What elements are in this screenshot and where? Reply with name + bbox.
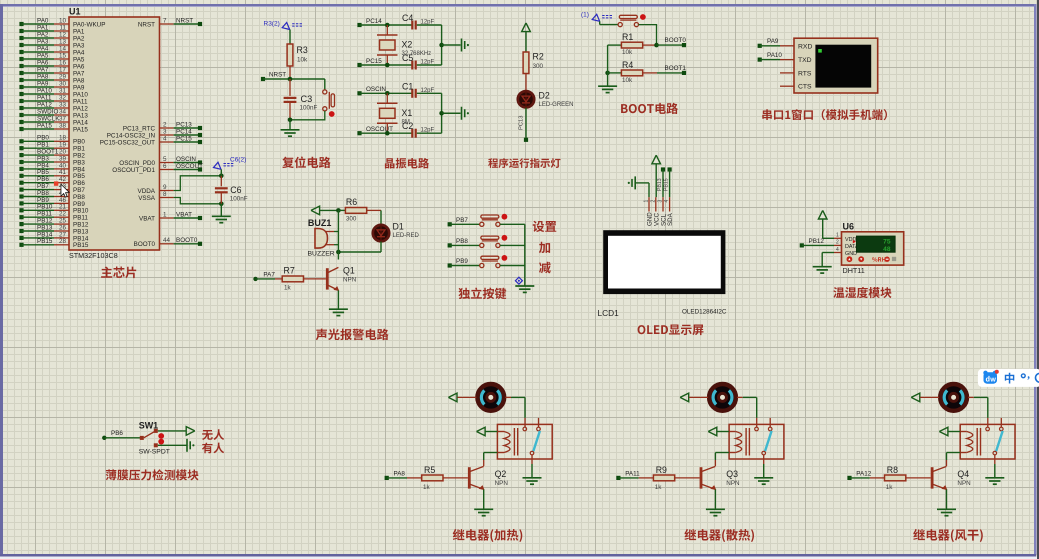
svg-text:1k: 1k bbox=[423, 484, 431, 491]
IME toolbar bbox=[978, 369, 1039, 387]
wire R2 to D2 bbox=[525, 74, 527, 91]
wire crystal caps bus bbox=[439, 93, 460, 133]
wire net OSCIN bbox=[357, 86, 411, 96]
svg-text:X1: X1 bbox=[402, 108, 413, 118]
svg-text:2: 2 bbox=[650, 200, 656, 203]
ground bbox=[813, 267, 832, 273]
label 继电器(散热) bbox=[684, 529, 754, 542]
svg-text:30: 30 bbox=[59, 80, 67, 87]
wire to boot button bbox=[600, 21, 618, 24]
wire boot ground rail bbox=[607, 45, 609, 86]
wire net PA8 bbox=[385, 470, 407, 480]
svg-text:PA2: PA2 bbox=[73, 35, 85, 42]
svg-text:1k: 1k bbox=[886, 484, 894, 491]
svg-text:PA12: PA12 bbox=[73, 105, 88, 112]
label 薄膜压力检测模块 bbox=[106, 469, 199, 480]
wire DHT GND bbox=[822, 253, 834, 267]
wire net SCL bbox=[657, 167, 665, 197]
wire key to ground bus bbox=[500, 265, 525, 267]
wire net OSCOUT bbox=[357, 126, 411, 136]
svg-text:PA14: PA14 bbox=[73, 119, 88, 126]
wire net PA6 to U1 pin 16 bbox=[19, 59, 85, 70]
wire net PB4 to U1 pin 40 bbox=[19, 162, 85, 173]
pushbutton 设置 bbox=[480, 214, 508, 227]
power terminal alarm VCC bbox=[311, 206, 341, 215]
svg-text:PA7: PA7 bbox=[37, 66, 49, 73]
resistor R6 300 bbox=[338, 197, 381, 223]
wire relay common to ground bbox=[994, 455, 996, 477]
svg-text:PA4: PA4 bbox=[73, 49, 85, 56]
svg-text:PA7: PA7 bbox=[263, 272, 275, 279]
svg-text:VBAT: VBAT bbox=[176, 211, 192, 218]
crystal X1 bbox=[377, 93, 412, 133]
svg-text:NPN: NPN bbox=[726, 480, 740, 487]
svg-text:1k: 1k bbox=[655, 484, 663, 491]
svg-text:PB15: PB15 bbox=[663, 178, 669, 191]
svg-text:PA15: PA15 bbox=[37, 122, 52, 129]
wire SW1 NC to ground bbox=[158, 444, 187, 446]
svg-text:PC13_RTC: PC13_RTC bbox=[123, 125, 156, 132]
svg-text:BOOT0: BOOT0 bbox=[665, 37, 687, 44]
power terminal 无人 bbox=[186, 427, 195, 436]
U1 pin 8 VSSA bbox=[138, 191, 173, 202]
ground bbox=[212, 216, 231, 222]
ground bbox=[281, 130, 300, 136]
svg-text:SWCLK: SWCLK bbox=[37, 115, 60, 122]
ground bbox=[598, 86, 617, 92]
svg-text:PA2: PA2 bbox=[37, 31, 49, 38]
buzzer BUZ1 bbox=[308, 218, 339, 257]
U1 pin 3 PC14 bbox=[107, 128, 202, 139]
wire net PA12 bbox=[847, 470, 871, 480]
wire net BOOT1 to U1 pin 20 bbox=[19, 149, 85, 160]
U1 pin 9 VDDA bbox=[138, 184, 174, 195]
svg-text:OLED12864I2C: OLED12864I2C bbox=[682, 309, 727, 316]
svg-text:NRST: NRST bbox=[269, 72, 286, 79]
svg-text:NPN: NPN bbox=[495, 480, 509, 487]
svg-text:PA9: PA9 bbox=[767, 38, 779, 45]
DHT11 display bbox=[853, 236, 895, 253]
svg-text:R4: R4 bbox=[622, 60, 633, 70]
wire VSSA to C6 bottom bbox=[174, 198, 222, 204]
svg-text:PA10: PA10 bbox=[37, 87, 52, 94]
svg-text:PA11: PA11 bbox=[37, 94, 52, 101]
svg-text:38: 38 bbox=[59, 122, 67, 129]
svg-text:PC14: PC14 bbox=[366, 18, 382, 25]
label 加 bbox=[539, 242, 550, 253]
U1 pin 6 OSCOUT bbox=[112, 163, 203, 174]
U1 pin 44 BOOT0 bbox=[134, 237, 202, 248]
power terminal motor bbox=[911, 393, 939, 402]
svg-text:BOOT0: BOOT0 bbox=[134, 241, 156, 248]
LCD1 pin 4 SDA bbox=[664, 197, 674, 226]
wire key to ground bus bbox=[500, 223, 525, 225]
svg-text:U1: U1 bbox=[69, 7, 81, 17]
LCD1 OLED display bbox=[598, 230, 727, 318]
mouse cursor bbox=[54, 181, 69, 197]
svg-text:SWDIO: SWDIO bbox=[37, 108, 58, 115]
svg-text:U6: U6 bbox=[843, 222, 855, 232]
capacitor C1 12pF bbox=[402, 81, 442, 98]
svg-text:17: 17 bbox=[59, 66, 67, 73]
svg-text:PB9: PB9 bbox=[456, 258, 468, 265]
wire net PA12 to U1 pin 33 bbox=[19, 101, 88, 112]
label OLED显示屏 bbox=[638, 325, 704, 336]
svg-text:33: 33 bbox=[59, 101, 67, 108]
svg-text:PA10: PA10 bbox=[767, 52, 782, 59]
wire C6 to ground bbox=[220, 204, 222, 216]
svg-text:PA11: PA11 bbox=[73, 98, 88, 105]
svg-text:100nF: 100nF bbox=[300, 105, 318, 112]
power terminal (1) bbox=[581, 12, 613, 22]
label 声光报警电路 bbox=[316, 329, 389, 341]
capacitor C6 100nF bbox=[215, 176, 248, 204]
svg-text:15: 15 bbox=[59, 52, 67, 59]
relay R5 body bbox=[497, 418, 552, 459]
svg-text:R6: R6 bbox=[346, 197, 357, 207]
svg-text:16: 16 bbox=[59, 59, 67, 66]
svg-text:C6: C6 bbox=[230, 185, 241, 195]
svg-text:SW-SPDT: SW-SPDT bbox=[139, 449, 170, 456]
motor fan R9 bbox=[709, 384, 736, 411]
wire net PA11 bbox=[616, 470, 640, 480]
resistor R1 10k bbox=[608, 32, 659, 56]
svg-text:TXD: TXD bbox=[798, 57, 812, 64]
wire net NRST bbox=[261, 72, 325, 82]
svg-text:VDDA: VDDA bbox=[138, 188, 156, 195]
crystal X2 bbox=[377, 25, 431, 65]
svg-text:75: 75 bbox=[883, 239, 891, 246]
svg-text:CTS: CTS bbox=[798, 84, 812, 91]
svg-text:29: 29 bbox=[59, 73, 67, 80]
svg-text:BOOT0: BOOT0 bbox=[176, 237, 198, 244]
svg-text:OSCOUT: OSCOUT bbox=[176, 163, 203, 170]
svg-text:Q1: Q1 bbox=[343, 265, 355, 275]
LCD1 pin 3 SCL bbox=[658, 197, 668, 226]
svg-text:OSCOUT_PD1: OSCOUT_PD1 bbox=[112, 167, 155, 174]
svg-text:300: 300 bbox=[346, 216, 357, 223]
svg-text:PA8: PA8 bbox=[394, 470, 406, 477]
svg-text:LED-GREEN: LED-GREEN bbox=[539, 102, 574, 108]
svg-text:BOOT1: BOOT1 bbox=[665, 65, 687, 72]
svg-text:100nF: 100nF bbox=[230, 196, 248, 203]
label 无人 bbox=[202, 429, 224, 440]
svg-text:PC14-OSC32_IN: PC14-OSC32_IN bbox=[107, 132, 156, 139]
svg-text:C2: C2 bbox=[402, 121, 413, 131]
resistor R5 1k bbox=[407, 465, 468, 491]
wire net PA9 to U1 pin 30 bbox=[19, 80, 85, 91]
pushbutton 加 bbox=[480, 235, 508, 248]
svg-text:2: 2 bbox=[163, 121, 167, 128]
ground bbox=[523, 478, 542, 484]
svg-text:PA11: PA11 bbox=[625, 470, 640, 477]
pushbutton BOOT bbox=[618, 14, 646, 27]
svg-text:PB12: PB12 bbox=[809, 238, 825, 245]
power terminal C6(2) bbox=[214, 157, 247, 176]
label DHT11 bbox=[843, 266, 865, 275]
svg-text:37: 37 bbox=[59, 115, 67, 122]
motor fan R8 bbox=[940, 384, 967, 411]
svg-text:Q2: Q2 bbox=[495, 469, 507, 479]
virtual terminal body bbox=[794, 38, 878, 93]
wire net PB3 to U1 pin 39 bbox=[19, 155, 85, 166]
ground bbox=[706, 509, 725, 515]
svg-text:X2: X2 bbox=[402, 40, 413, 50]
wire net PB15 to U1 pin 28 bbox=[19, 238, 89, 249]
svg-text:5: 5 bbox=[163, 156, 167, 163]
wire net PA4 to U1 pin 14 bbox=[19, 45, 85, 56]
svg-text:14: 14 bbox=[59, 45, 67, 52]
ground bbox=[754, 478, 773, 484]
svg-text:C4: C4 bbox=[402, 13, 413, 23]
svg-text:PA8: PA8 bbox=[73, 77, 85, 84]
svg-text:PA4: PA4 bbox=[37, 45, 49, 52]
label 有人 bbox=[202, 443, 224, 454]
label BOOT电路 bbox=[621, 103, 678, 114]
pin CTS stub bbox=[780, 85, 794, 87]
IC U1 STM32F103C8 body bbox=[69, 7, 160, 261]
label 温湿度模块 bbox=[833, 287, 891, 298]
wire R6 to D1 bbox=[380, 210, 382, 225]
svg-text:4: 4 bbox=[163, 135, 167, 142]
wire net PB12 to U1 pin 25 bbox=[19, 218, 89, 229]
label 独立按键 bbox=[458, 288, 506, 300]
svg-text:OSCIN: OSCIN bbox=[176, 156, 196, 163]
svg-text:6: 6 bbox=[163, 163, 167, 170]
wire net PB12 bbox=[800, 238, 834, 248]
power terminal OLED VCC bbox=[652, 155, 661, 197]
label 复位电路 bbox=[282, 157, 330, 169]
switch SW1 SW-SPDT bbox=[139, 420, 170, 455]
svg-text:RXD: RXD bbox=[798, 43, 812, 50]
wire net PB6 bbox=[102, 430, 140, 440]
label 程序运行指示灯 bbox=[488, 158, 560, 168]
label 继电器(加热) bbox=[453, 529, 523, 542]
wire net SDA bbox=[663, 167, 671, 197]
svg-text:NPN: NPN bbox=[957, 480, 971, 487]
svg-text:1: 1 bbox=[163, 211, 167, 218]
ground bbox=[462, 39, 470, 52]
wire net PB8 to U1 pin 45 bbox=[19, 190, 85, 201]
svg-text:R9: R9 bbox=[656, 465, 667, 475]
wire C3 to ground bbox=[289, 120, 291, 130]
svg-text:DHT11: DHT11 bbox=[843, 266, 865, 275]
svg-text:48: 48 bbox=[883, 246, 891, 253]
label 设置 bbox=[533, 221, 557, 232]
node C6 bottom bbox=[219, 202, 224, 207]
svg-text:PC15-OSC32_OUT: PC15-OSC32_OUT bbox=[100, 139, 155, 146]
wire net PB1 to U1 pin 19 bbox=[19, 142, 85, 153]
svg-text:PA12: PA12 bbox=[37, 101, 52, 108]
wire net PA2 to U1 pin 12 bbox=[19, 31, 85, 42]
svg-text:10k: 10k bbox=[622, 77, 633, 84]
DHT11 buttons bbox=[847, 256, 897, 262]
label 晶振电路 bbox=[385, 158, 429, 169]
wire net PB14 to U1 pin 27 bbox=[19, 231, 89, 242]
wire alarm bus bbox=[337, 210, 339, 259]
svg-text:C6(2): C6(2) bbox=[230, 157, 246, 164]
ground bbox=[329, 309, 348, 315]
node C6 top bbox=[219, 174, 224, 179]
svg-text:1: 1 bbox=[644, 200, 650, 203]
svg-text:PC15: PC15 bbox=[176, 135, 192, 142]
ground bbox=[187, 439, 194, 452]
svg-text:13: 13 bbox=[59, 38, 67, 45]
resistor R7 1k bbox=[275, 265, 326, 291]
svg-text:31: 31 bbox=[59, 87, 67, 94]
label 减 bbox=[539, 262, 551, 274]
wire relay common to ground bbox=[763, 455, 765, 477]
svg-text:10: 10 bbox=[59, 17, 67, 24]
LCD1 pin 2 VCC bbox=[650, 197, 660, 226]
svg-text:R1: R1 bbox=[622, 32, 633, 42]
svg-text:NPN: NPN bbox=[343, 276, 357, 283]
wire net PA11 to U1 pin 32 bbox=[19, 94, 88, 105]
svg-text:PB15: PB15 bbox=[73, 242, 89, 249]
svg-text:RTS: RTS bbox=[798, 70, 812, 77]
svg-text:3: 3 bbox=[163, 128, 167, 135]
power terminal motor bbox=[680, 393, 708, 402]
transistor Q4 NPN bbox=[931, 466, 971, 490]
power terminal R3(2) bbox=[264, 21, 303, 45]
wire net PA8 to U1 pin 29 bbox=[19, 73, 85, 84]
svg-text:PC14: PC14 bbox=[176, 128, 192, 135]
ground OLED bbox=[628, 176, 649, 197]
svg-text:1: 1 bbox=[836, 233, 839, 239]
svg-text:PA1: PA1 bbox=[37, 24, 49, 31]
svg-text:VSSA: VSSA bbox=[138, 195, 156, 202]
power terminal relay coil bbox=[708, 427, 729, 436]
wire net PA9 bbox=[758, 38, 794, 48]
resistor R9 1k bbox=[639, 465, 700, 491]
svg-text:PA0: PA0 bbox=[37, 17, 49, 24]
svg-text:PA6: PA6 bbox=[37, 59, 49, 66]
wire emitter to ground bbox=[483, 489, 485, 508]
svg-text:8: 8 bbox=[163, 191, 167, 198]
svg-text:PA12: PA12 bbox=[856, 470, 871, 477]
wire net PA1 to U1 pin 11 bbox=[19, 24, 85, 35]
svg-text:300: 300 bbox=[533, 63, 544, 70]
svg-text:PB15: PB15 bbox=[37, 238, 53, 245]
wire emitter to ground bbox=[946, 489, 948, 508]
capacitor C5 12pF bbox=[402, 53, 442, 70]
U1 pin 1 VBAT bbox=[139, 211, 202, 222]
wire coil to collector bbox=[715, 453, 729, 467]
svg-text:PA5: PA5 bbox=[73, 56, 85, 63]
wire net PB5 to U1 pin 41 bbox=[19, 169, 85, 180]
LED D1 LED-RED bbox=[373, 222, 420, 242]
svg-text:R2: R2 bbox=[533, 52, 544, 62]
svg-text:STM32F103C8: STM32F103C8 bbox=[69, 251, 118, 260]
transistor Q2 NPN bbox=[468, 466, 508, 490]
wire net BOOT0 bbox=[657, 37, 687, 47]
svg-text:OSCIN_PD0: OSCIN_PD0 bbox=[119, 160, 155, 167]
wire coil to collector bbox=[484, 453, 498, 467]
svg-text:10k: 10k bbox=[297, 57, 308, 64]
svg-text:SDA: SDA bbox=[667, 212, 674, 226]
resistor R2 300 bbox=[523, 52, 544, 74]
ground bbox=[515, 286, 534, 292]
svg-text:NRST: NRST bbox=[176, 17, 193, 24]
pushbutton reset bbox=[323, 90, 335, 117]
svg-text:7: 7 bbox=[163, 17, 167, 24]
relay R8 body bbox=[960, 418, 1015, 459]
wire coil to collector bbox=[947, 453, 961, 467]
power terminal motor bbox=[448, 393, 476, 402]
capacitor C2 12pF bbox=[402, 121, 442, 138]
ground bbox=[937, 509, 956, 515]
wire net PC14 bbox=[357, 18, 411, 28]
LED D2 LED-GREEN bbox=[518, 90, 574, 108]
wire net PC13 bbox=[519, 108, 529, 142]
svg-text:PB6: PB6 bbox=[111, 430, 123, 437]
wire keys ground bus bbox=[524, 224, 526, 285]
svg-text:11: 11 bbox=[59, 24, 66, 31]
resistor R8 1k bbox=[870, 465, 931, 491]
transistor Q3 NPN bbox=[700, 466, 740, 490]
power terminal VCC bbox=[522, 23, 531, 52]
svg-text:PA1: PA1 bbox=[73, 28, 85, 35]
svg-text:44: 44 bbox=[163, 237, 171, 244]
U1 pin 5 OSCIN bbox=[119, 156, 202, 167]
wire net PB0 to U1 pin 18 bbox=[19, 135, 85, 146]
wire SW1 NO to power bbox=[158, 430, 186, 432]
svg-text:PA7: PA7 bbox=[73, 70, 85, 77]
svg-text:PB8: PB8 bbox=[456, 238, 468, 245]
svg-text:C3: C3 bbox=[301, 94, 313, 104]
wire emitter to ground bbox=[714, 489, 716, 508]
transistor Q1 NPN bbox=[326, 265, 357, 291]
wire net PA7 to U1 pin 17 bbox=[19, 66, 85, 77]
svg-text:PB7: PB7 bbox=[456, 217, 468, 224]
wire net PB9 bbox=[448, 258, 480, 268]
capacitor C3 100nF bbox=[284, 79, 318, 122]
wire reset button to ground rail bbox=[290, 111, 325, 120]
U1 pin 2 PC13 bbox=[123, 121, 202, 132]
svg-text:Q4: Q4 bbox=[957, 469, 969, 479]
wire boot button to BOOT0 node bbox=[639, 25, 657, 45]
wire net PA10 to U1 pin 31 bbox=[19, 87, 88, 98]
svg-text:Q3: Q3 bbox=[726, 469, 738, 479]
svg-text:C5: C5 bbox=[402, 53, 413, 63]
wire net PA10 bbox=[758, 52, 794, 62]
power terminal relay coil bbox=[477, 427, 498, 436]
wire net PC15 bbox=[357, 58, 411, 68]
svg-text:LED-RED: LED-RED bbox=[393, 233, 420, 239]
wire emitter to ground bbox=[337, 290, 339, 308]
svg-text:VCC: VCC bbox=[653, 212, 660, 226]
svg-text:2: 2 bbox=[836, 240, 839, 246]
resistor R3 10k bbox=[287, 44, 308, 79]
svg-text:PC13: PC13 bbox=[176, 121, 192, 128]
svg-text:PA3: PA3 bbox=[73, 42, 85, 49]
wire net PA7 bbox=[253, 272, 275, 281]
svg-text:PA5: PA5 bbox=[37, 52, 49, 59]
power terminal DHT VCC bbox=[818, 210, 834, 238]
svg-text:R8: R8 bbox=[887, 465, 898, 475]
wire crystal caps bus bbox=[439, 25, 460, 65]
wire net PA5 to U1 pin 15 bbox=[19, 52, 85, 63]
label 主芯片 bbox=[101, 267, 136, 279]
wire net PA15 to U1 pin 38 bbox=[19, 122, 88, 133]
svg-text:PA9: PA9 bbox=[73, 84, 85, 91]
wire net PB13 to U1 pin 26 bbox=[19, 224, 89, 235]
svg-text:SW1: SW1 bbox=[139, 420, 159, 430]
svg-text:R3: R3 bbox=[297, 45, 308, 55]
wire net PB8 bbox=[448, 238, 480, 248]
wire VDDA to C6 top bbox=[174, 176, 222, 191]
svg-text:PA8: PA8 bbox=[37, 73, 49, 80]
